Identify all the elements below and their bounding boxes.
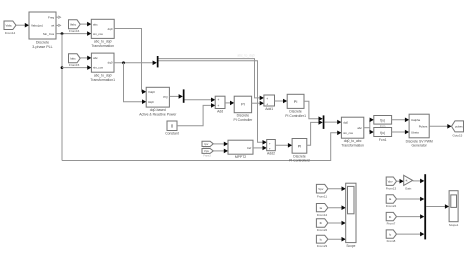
svg-text:From13: From13 [386, 186, 397, 190]
svg-text:Ipv: Ipv [204, 142, 208, 146]
svg-text:dq0: dq0 [108, 27, 113, 31]
block MPPT2 [228, 140, 253, 154]
from tag Ib (From7) [386, 212, 396, 220]
svg-text:Discrete SV PWM: Discrete SV PWM [406, 139, 433, 143]
svg-text:Vpv: Vpv [388, 179, 394, 183]
svg-text:Ib: Ib [389, 215, 392, 219]
wire sin_cos branch to Transformation1 [62, 67, 91, 69]
summer Add [215, 96, 225, 108]
demux Demux current components [157, 56, 159, 67]
svg-text:Discrete: Discrete [293, 154, 306, 158]
wire Fcn1 out to Ubeta [392, 131, 409, 133]
svg-text:Freq: Freq [48, 15, 55, 19]
from tag Vpv (From13) [386, 177, 396, 185]
from tag Ipv [202, 141, 213, 146]
svg-text:+: + [217, 98, 219, 102]
svg-text:+: + [269, 141, 271, 145]
wire From24 to Mux1 in2 [397, 198, 424, 200]
svg-text:Pulses: Pulses [419, 125, 428, 129]
svg-text:abc: abc [357, 126, 362, 130]
block Discrete SV PWM Generator [409, 114, 429, 138]
from tag Vpv (From11) [316, 184, 328, 193]
svg-text:Constant: Constant [165, 132, 179, 136]
svg-text:From11: From11 [317, 195, 327, 199]
wire From8 to Mux1 in4 [397, 233, 424, 235]
svg-text:From15: From15 [69, 63, 80, 67]
demux Demux1 PQ split [183, 89, 185, 102]
svg-text:PI Controller1: PI Controller1 [285, 114, 306, 118]
wire Demux out2 (Iq) to Add2 [159, 61, 266, 143]
node junction Idq0 branch [122, 61, 125, 64]
svg-text:abc: abc [93, 56, 98, 60]
block U1 Discrete 3-phase PLL [29, 12, 56, 39]
block abc_to_dq0 Transformation1 [91, 53, 114, 72]
svg-text:Sin_Cos: Sin_Cos [43, 32, 55, 36]
svg-text:Ualpha: Ualpha [411, 118, 421, 122]
wire Gain to Mux1 in1 [413, 180, 424, 182]
node junction sin_cos branch to Transformation1 [61, 66, 64, 69]
from tag Ib (From22) [316, 219, 328, 228]
svg-text:Add: Add [217, 109, 223, 113]
svg-text:sin_cos: sin_cos [343, 131, 353, 135]
wire abc out fork to Fcn blocks [364, 127, 370, 129]
svg-text:Active & Reactive Power: Active & Reactive Power [139, 112, 177, 116]
block Fcn1 [374, 128, 392, 137]
wire PQ out to Demux1 [169, 95, 182, 97]
svg-text:dq0_to_abc: dq0_to_abc [344, 139, 362, 143]
svg-text:Transformation1: Transformation1 [90, 78, 115, 82]
wire Vpv to MPPT [213, 150, 227, 152]
svg-text:+: + [266, 97, 268, 101]
svg-text:From24: From24 [386, 204, 397, 208]
mux Mux dq reference [323, 115, 325, 128]
svg-text:dq0: dq0 [108, 61, 113, 65]
wire MPPT Iref out to Add2 in2 [253, 147, 266, 149]
svg-text:Ia: Ia [389, 197, 392, 201]
from tag Ia (From12) [316, 204, 328, 212]
svg-text:Iref: Iref [247, 146, 251, 150]
svg-text:abc_to_dq0: abc_to_dq0 [237, 54, 254, 58]
block dq0_to_abc Transformation [341, 117, 363, 138]
svg-text:+: + [269, 147, 271, 151]
svg-text:Add2: Add2 [267, 152, 275, 156]
scope Scope 4-input [346, 183, 356, 242]
wire From15 to abc input [80, 57, 90, 59]
svg-text:-K-: -K- [405, 180, 409, 183]
wire Transformation dq0 out to PQ block Vdq0 [114, 29, 145, 92]
wire From12 to Scope in2 [328, 207, 345, 209]
wire Ipv to MPPT [213, 143, 227, 145]
svg-text:PI: PI [241, 103, 245, 107]
svg-text:pulses: pulses [455, 125, 463, 129]
from tag Vabc (From14) [4, 21, 16, 30]
from tag Vabc (From16) [69, 20, 81, 29]
block abc_to_dq0 Transformation [91, 19, 114, 38]
block Discrete PI Controller [234, 96, 251, 113]
from tag Vpv [202, 149, 213, 154]
wire Idq0 branch to PQ block Idq0 [124, 63, 146, 102]
svg-text:Vdq0: Vdq0 [148, 90, 155, 94]
summer Add2 [267, 140, 276, 151]
wire PI Controller out to Add1 in2 [252, 102, 264, 104]
wire Add out to PI controller [225, 102, 233, 104]
svg-text:Idq0: Idq0 [148, 100, 154, 104]
svg-text:Gain: Gain [405, 186, 412, 190]
svg-text:Transformation: Transformation [91, 44, 114, 48]
svg-text:3-phase PLL: 3-phase PLL [32, 45, 52, 49]
wire Add1 out to PI Controller1 [275, 100, 287, 102]
block dq0-based Active & Reactive Power [146, 87, 169, 107]
svg-text:PI: PI [294, 100, 298, 104]
gain Gain triangle [404, 175, 413, 185]
node junction sin_cos bus top [61, 32, 64, 35]
svg-text:Scope1: Scope1 [449, 223, 459, 227]
from tag Ic (From8) [386, 230, 396, 238]
svg-text:Ubeta: Ubeta [411, 130, 419, 134]
wire From22 to Scope in3 [328, 222, 345, 224]
svg-text:From14: From14 [5, 31, 16, 35]
unconnected stub wt output [56, 24, 59, 26]
from tag Ia (From24) [386, 195, 396, 203]
scope Scope1 [449, 191, 458, 222]
svg-text:From8: From8 [387, 239, 396, 243]
wire Constant to Add in2 [177, 105, 214, 125]
svg-text:Generator: Generator [412, 144, 428, 148]
wire PI Controller2 out to Mux in2 [307, 122, 322, 145]
block Fcn [374, 116, 392, 125]
svg-text:Transformation: Transformation [341, 144, 364, 148]
wire From13 to Gain [397, 180, 403, 182]
wire Add2 out to PI Controller2 [275, 144, 291, 146]
svg-text:abc_to_dq0: abc_to_dq0 [94, 40, 112, 44]
svg-text:sin_cos: sin_cos [93, 32, 103, 36]
svg-text:PI Controller2: PI Controller2 [289, 159, 310, 163]
svg-text:From23: From23 [317, 244, 328, 248]
svg-text:Discrete: Discrete [237, 114, 250, 118]
from tag Iabc (From15) [69, 54, 81, 63]
svg-text:PQ: PQ [163, 95, 168, 99]
wire From16 to abc input [80, 23, 90, 25]
unconnected stub Freq output [56, 16, 59, 18]
svg-text:Vpv: Vpv [318, 187, 324, 191]
mux Mux1 signals [424, 174, 426, 239]
wire From14 to PLL input [16, 24, 28, 26]
summer Add1 [264, 95, 275, 106]
svg-text:Scope: Scope [346, 244, 355, 248]
wire Demux1 out (Q) to Add in1 [185, 99, 215, 101]
svg-text:From7: From7 [387, 222, 396, 226]
block Discrete PI Controller1 [287, 94, 304, 108]
svg-text:Vabc(pu): Vabc(pu) [31, 23, 43, 27]
svg-text:sin_cos: sin_cos [93, 66, 103, 70]
svg-text:From22: From22 [317, 228, 328, 232]
svg-text:Vabc: Vabc [70, 23, 77, 27]
svg-text:Discrete: Discrete [289, 110, 302, 114]
svg-text:Goto15: Goto15 [452, 133, 462, 137]
wire Pulses out to Goto15 [429, 125, 451, 127]
svg-text:Vpv: Vpv [204, 149, 210, 153]
svg-text:Iabc: Iabc [70, 57, 76, 61]
svg-text:Vabc: Vabc [6, 23, 13, 27]
svg-text:dq0: dq0 [343, 120, 348, 124]
svg-text:MPPT2: MPPT2 [235, 155, 246, 159]
svg-text:Ia: Ia [320, 206, 323, 210]
wire Demux out1 (Id) to Add1 [159, 59, 264, 98]
wire From11 to Scope in1 [328, 188, 345, 190]
svg-text:From12: From12 [317, 213, 328, 217]
svg-text:wt: wt [51, 24, 54, 28]
wire Mux1 out to Scope1 [426, 206, 448, 208]
svg-text:+: + [266, 102, 268, 106]
svg-text:Ib: Ib [320, 221, 323, 225]
svg-text:PI Controller: PI Controller [233, 118, 253, 122]
svg-text:abc_to_dq0: abc_to_dq0 [94, 73, 112, 77]
wire PLL Sin_Cos to abc_to_dq0 Transformation sin_cos [56, 33, 91, 35]
wire From7 to Mux1 in3 [397, 216, 424, 218]
svg-text:abc: abc [93, 22, 98, 26]
wire sin_cos bus bottom run to dq0_to_abc [62, 133, 341, 161]
wire PI Controller1 out to Mux in1 [304, 101, 322, 118]
svg-text:f(u): f(u) [380, 131, 385, 135]
wire Fcn out to Ualpha [392, 119, 409, 121]
svg-text:PI: PI [298, 145, 302, 149]
goto tag pulses (Goto15) [452, 121, 464, 132]
svg-text:From3: From3 [203, 155, 211, 158]
svg-text:dq0-based: dq0-based [150, 108, 166, 112]
wire Mux out to dq0 input [324, 121, 340, 123]
from tag Ic (From23) [316, 235, 328, 243]
wire From23 to Scope in4 [328, 238, 345, 240]
wire sin_cos bus vertical [61, 34, 63, 161]
wire Transformation1 dq0 out to Demux [114, 62, 156, 64]
svg-text:Discrete: Discrete [36, 41, 49, 45]
block Discrete PI Controller2 [292, 139, 307, 154]
svg-text:f(u): f(u) [380, 119, 385, 123]
svg-text:Fcn1: Fcn1 [379, 138, 387, 142]
svg-text:From16: From16 [69, 29, 80, 33]
svg-text:+: + [217, 104, 219, 108]
svg-text:Add1: Add1 [265, 107, 273, 111]
block Constant value 0 [167, 121, 177, 131]
